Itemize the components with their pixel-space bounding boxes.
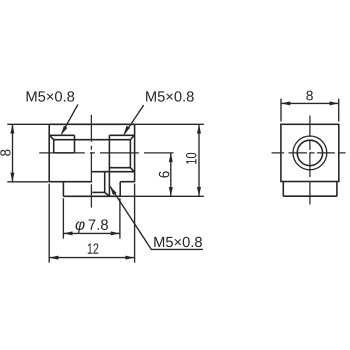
arrowheads dim phi7.8 (63, 231, 72, 235)
arrowheads dim 12 (49, 256, 58, 260)
bottom M5 hole: minor vertical (section half) (104, 172, 106, 193)
dim phi7.8: dimension line (63, 232, 120, 234)
left M5 hole: bottom at axis (54, 152, 75, 154)
dim 8 left: extension lines (7, 124, 49, 182)
dim text phi 7.8 (76, 219, 108, 233)
thread minor dia line (continuous across) (54, 139, 131, 141)
dim text 8 left (rotated) (0, 150, 10, 156)
dim 12: dimension line (49, 257, 134, 259)
right M5 hole: major top line (109, 134, 134, 136)
arrowhead leader M5 top-left (61, 126, 67, 135)
side view thread minor circle (297, 140, 322, 165)
front view body outline (49, 124, 134, 181)
arrowhead leader M5 top-right (124, 126, 130, 135)
left M5 hole: entry chamfer (50, 136, 54, 140)
right M5 hole: minor vertical at opening (129, 140, 131, 168)
label M5x0.8 top-left (27, 91, 75, 101)
dim 10 right: extension lines (120, 124, 204, 196)
boss (phi 7.8 cylinder) outline (63, 182, 120, 197)
dim text 6 (rotated) (159, 171, 170, 177)
leader line M5 top-right (124, 105, 143, 134)
dim 12: extension lines (49, 184, 134, 263)
side view thread major circle (293, 136, 327, 170)
label M5x0.8 top-right (146, 91, 194, 101)
left M5 hole: drill end vertical (74, 135, 76, 153)
arrowheads dim 10 (197, 124, 201, 133)
left M5 hole: minor-side vertical (53, 140, 55, 153)
dim 10 right: dimension line (198, 124, 200, 196)
right M5 hole: minor bottom line (109, 167, 130, 169)
dim 6: dimension line (170, 153, 172, 196)
arrowheads dim 8 side view (281, 101, 290, 105)
side view horizontal centerline (272, 152, 346, 154)
dim text 8 side view (306, 91, 312, 101)
dim 8 side view: dimension line (281, 102, 339, 104)
dim 8 left: dimension line (12, 124, 14, 182)
leader line M5 top-left (62, 105, 78, 134)
right M5 hole: major bottom line (91, 171, 134, 173)
right M5 hole: top entry chamfer (130, 135, 134, 139)
dim 8 side view: extension lines (281, 99, 339, 122)
bottom M5 hole: entry chamfer (105, 192, 110, 196)
arrowheads dim 8 left (10, 124, 14, 133)
right M5 hole: end vertical / bottom hole major (108, 135, 110, 196)
bottom M5 hole: chamfer shoulder line (92, 191, 105, 193)
side view vertical centerline (309, 116, 311, 205)
front view vertical centerline (90, 115, 92, 208)
label M5x0.8 bottom (154, 237, 202, 247)
arrowheads dim 6 (169, 153, 173, 162)
dim text 12 (88, 243, 99, 253)
side view boss outline (283, 182, 337, 197)
dim text 10 (rotated) (186, 153, 197, 164)
leader line M5 bottom with underline (110, 187, 203, 250)
front view horizontal centerline (39, 152, 173, 154)
side view square outline (281, 124, 339, 181)
right M5 hole: bottom entry chamfer (130, 168, 134, 172)
dim phi7.8: extension lines (63, 198, 120, 238)
arrowhead leader M5 bottom (110, 186, 117, 195)
left M5 hole: major dia line (49, 134, 74, 136)
